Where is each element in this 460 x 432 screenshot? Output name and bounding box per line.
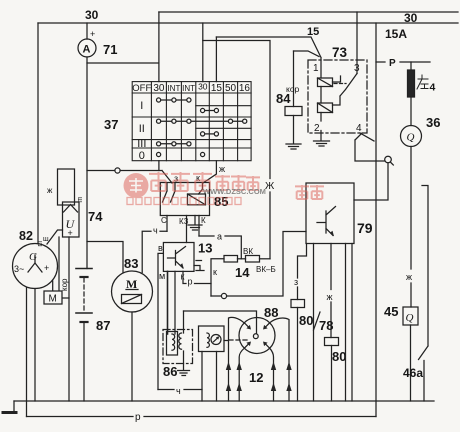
label 14 — [235, 265, 250, 280]
wire 79 pin 1 jog with resistor 80 — [298, 244, 307, 300]
svg-text:ч: ч — [153, 226, 158, 236]
svg-text:+: + — [68, 228, 73, 238]
svg-text:80: 80 — [299, 313, 313, 328]
svg-text:II: II — [139, 123, 145, 135]
transistor symbol inside 79 — [317, 207, 336, 236]
svg-text:G: G — [29, 251, 37, 263]
svg-text:С: С — [161, 216, 167, 225]
svg-text:0: 0 — [139, 150, 145, 162]
label 85 — [214, 194, 228, 209]
svg-text:з: з — [294, 277, 298, 287]
distributor electrode arrows — [265, 323, 269, 327]
watermark logo and text — [124, 172, 325, 205]
wire 45 to ground bus — [410, 325, 412, 401]
svg-text:73: 73 — [332, 45, 348, 60]
wire motor 83 left feed — [87, 242, 123, 273]
battery 87 — [76, 268, 92, 270]
label 82 — [19, 229, 33, 243]
label 13 — [198, 241, 212, 256]
svg-text:р: р — [188, 277, 193, 287]
generator G 82 — [13, 244, 58, 289]
label 36 — [426, 115, 440, 130]
svg-text:WWW.DZSC.COM: WWW.DZSC.COM — [203, 187, 266, 196]
breaker box — [199, 326, 225, 352]
wire M box to kor wire — [63, 297, 69, 299]
wire generator to ground bus — [34, 289, 36, 402]
label 88 — [264, 305, 278, 320]
wire top bus upper — [159, 11, 458, 13]
ground pin 2 — [314, 141, 330, 146]
label VK-B — [256, 265, 276, 274]
coil 86 secondary winding — [179, 333, 182, 349]
svg-text:15: 15 — [211, 83, 223, 94]
wire P line — [376, 61, 430, 63]
svg-text:82: 82 — [19, 229, 33, 243]
wire 15A line down right side — [375, 23, 377, 417]
ignition coil 86 box dash-dot — [163, 330, 193, 364]
node o junction circle — [115, 168, 120, 173]
label 74 — [88, 209, 103, 224]
svg-text:86: 86 — [163, 364, 177, 379]
connector Q symbol — [385, 156, 392, 163]
ground capacitor 84 — [286, 144, 301, 149]
svg-text:ВК: ВК — [243, 247, 253, 256]
fuse left-4 — [410, 62, 412, 70]
wire resistor right to Zh wire — [260, 258, 271, 260]
wire pin 4 to 15A line — [360, 133, 374, 141]
relay 85 pin KZ wire to transistor 13 — [186, 216, 188, 243]
wire 15 line to relay 73 pin 1 — [216, 37, 321, 78]
wire top bus lower (30) — [38, 22, 458, 24]
svg-text:ж: ж — [47, 186, 53, 195]
wire lower bus p — [27, 416, 377, 418]
svg-text:I: I — [140, 100, 143, 112]
svg-text:М: М — [49, 294, 57, 305]
wire Zh feed from top — [203, 41, 270, 259]
svg-text:37: 37 — [104, 117, 118, 132]
wire main vertical bus ammeter to battery — [86, 63, 88, 269]
wire battery to ground bus — [83, 322, 85, 401]
svg-text:ж: ж — [406, 272, 412, 282]
relay 85 pin K wire — [198, 216, 200, 237]
svg-text:12: 12 — [249, 370, 263, 385]
resistor VK-B — [246, 256, 260, 263]
wire upper ground bus — [14, 400, 434, 402]
svg-text:ш: ш — [36, 241, 43, 247]
relay 73 switch blade — [333, 74, 358, 106]
wire coil2 to pin 2 ground — [320, 113, 322, 141]
resistor 80 upper — [291, 300, 305, 308]
wire HT line to distributor center — [184, 311, 257, 333]
svg-text:78: 78 — [319, 318, 333, 333]
svg-text:2: 2 — [314, 123, 320, 134]
svg-text:71: 71 — [103, 42, 117, 57]
capacitor 84 — [293, 51, 295, 107]
table contacts row II — [159, 120, 245, 122]
svg-text:46a: 46a — [403, 366, 423, 380]
svg-text:К: К — [201, 216, 206, 225]
ground coil 86 — [178, 351, 190, 376]
wire pin 3 feed from top — [356, 12, 358, 74]
svg-text:A: A — [83, 44, 91, 56]
svg-text:з: з — [174, 174, 178, 184]
wire breaker to rotor dashed — [224, 339, 247, 342]
label sh left of U box — [36, 241, 43, 247]
transistor symbol inside 13 — [168, 247, 186, 269]
svg-text:15: 15 — [307, 26, 319, 38]
wire ch dash from pin C to motor — [142, 231, 167, 272]
svg-text:ч: ч — [176, 386, 181, 396]
wire table col 30-2 feed — [202, 23, 204, 82]
sensor Q 36 — [401, 126, 422, 147]
svg-text:30: 30 — [85, 8, 99, 22]
wire 79 pin 2 — [313, 244, 315, 402]
relay 85 contacts — [163, 183, 176, 202]
svg-text:4: 4 — [430, 82, 436, 94]
wire capacitor 84 to pin 1 — [294, 51, 320, 57]
wire pin 4 branch to Q connector and box 79 — [355, 133, 385, 161]
svg-text:4: 4 — [356, 123, 362, 134]
wire regulator to M box — [58, 237, 60, 290]
spark plug wire 2 — [239, 348, 244, 401]
wire ammeter output to table column 30 — [87, 57, 159, 63]
svg-text:ж: ж — [219, 164, 225, 174]
svg-text:INT: INT — [182, 84, 195, 93]
svg-text:в: в — [158, 243, 163, 253]
voltage regulator 74 housing — [58, 169, 75, 205]
svg-text:83: 83 — [124, 256, 138, 271]
label 86 — [163, 364, 177, 379]
pin v wire down to coil 86 side — [158, 253, 163, 389]
ignition module 79 box — [306, 183, 354, 244]
table contacts row 0 — [157, 152, 161, 156]
wire between resistors — [238, 258, 246, 260]
svg-text:Q: Q — [407, 132, 415, 144]
svg-text:КЗ: КЗ — [179, 217, 189, 226]
svg-text:13: 13 — [198, 241, 212, 256]
glow plug box 45 — [403, 307, 418, 325]
label kor — [286, 84, 300, 94]
label 83 — [124, 256, 138, 271]
node p label — [135, 412, 141, 423]
label 12 — [249, 370, 263, 385]
breaker box output wires — [202, 352, 217, 402]
wire left frame to generator — [37, 23, 39, 244]
svg-text:+: + — [44, 263, 49, 273]
relay 85 box — [160, 183, 209, 216]
relay 85 coil — [188, 194, 206, 205]
svg-text:30: 30 — [404, 11, 418, 25]
wire motor to ground bus — [131, 312, 133, 401]
wire M box link to generator — [52, 281, 54, 290]
wire generator shunt to regulator — [47, 230, 63, 244]
svg-text:м: м — [159, 271, 165, 281]
svg-text:36: 36 — [426, 115, 440, 130]
svg-text:P: P — [389, 58, 396, 69]
wire o line from p to box 79 — [211, 232, 306, 297]
node o circle — [221, 293, 226, 298]
label k pin top — [196, 173, 200, 183]
wire between coils — [320, 87, 322, 104]
svg-text:14: 14 — [235, 265, 250, 280]
pin labels 1 3 2 4 — [313, 63, 362, 134]
wire 79 right side down — [351, 244, 353, 402]
svg-text:Q: Q — [406, 312, 414, 324]
wire 79 pin 4 — [345, 244, 347, 402]
relay 73 coil 2 — [318, 103, 333, 113]
label 79 — [357, 220, 373, 236]
wiper motor M 83 — [112, 271, 153, 312]
svg-text:87: 87 — [96, 318, 110, 333]
svg-text:30: 30 — [153, 83, 165, 94]
table row labels I II III 0 — [137, 100, 146, 162]
svg-text:30: 30 — [198, 82, 208, 92]
svg-text:+: + — [90, 29, 95, 39]
regulator U element — [63, 202, 80, 237]
pin labels C KZ K — [161, 216, 206, 226]
node 30 label left — [85, 8, 99, 22]
wire table col 15 to relay 85 contact k — [203, 161, 216, 183]
label 37 — [104, 117, 118, 132]
wire table col 30 feed from top — [158, 12, 160, 82]
label 84 — [276, 91, 291, 106]
svg-text:Ж: Ж — [265, 181, 275, 192]
wire secondary top from HT line — [183, 311, 185, 333]
wire resistor feed left — [211, 259, 224, 284]
svg-text:1: 1 — [313, 63, 319, 74]
relay 73 coil 1 — [318, 78, 333, 87]
svg-text:88: 88 — [264, 305, 278, 320]
wire Q36 down to 45 — [410, 147, 412, 308]
label zuo 4 — [417, 75, 428, 89]
switch table grid 37 — [132, 82, 251, 161]
distributor 88 — [239, 318, 275, 354]
label 87 — [96, 318, 110, 333]
svg-text:45: 45 — [384, 304, 398, 319]
coil 86 primary winding — [172, 334, 175, 350]
table contacts row III — [159, 143, 189, 145]
svg-text:84: 84 — [276, 91, 291, 106]
wire ammeter drop — [86, 23, 88, 39]
label 45 — [384, 304, 398, 319]
label slash 78 — [314, 312, 321, 330]
svg-text:а: а — [217, 232, 222, 242]
relay 85 pin C wire — [166, 216, 168, 232]
relay 73 box dash-dot — [308, 60, 367, 133]
label kor rotated — [60, 278, 69, 291]
M box of generator — [44, 291, 62, 304]
wire a line from relay 85 K — [199, 236, 241, 259]
relay 85 ground — [188, 216, 202, 231]
svg-text:ж: ж — [327, 292, 333, 302]
pin m wire to ignition coil — [167, 271, 169, 334]
label zh at table bottom — [219, 164, 225, 174]
wire table col 15 feed — [215, 37, 217, 82]
svg-text:74: 74 — [88, 209, 103, 224]
wire ch bottom line — [158, 389, 202, 391]
spark plug wire 4 — [270, 318, 289, 401]
breaker cam circle — [211, 335, 221, 345]
svg-text:16: 16 — [239, 83, 251, 94]
resistor 80 lower — [325, 338, 339, 346]
table contacts row I — [159, 99, 189, 101]
spark plug wire 3 — [270, 348, 274, 401]
wire junction line with node o — [87, 171, 172, 184]
svg-text:III: III — [137, 138, 146, 150]
svg-text:кор: кор — [60, 278, 69, 291]
wire kor regulator to ground bus — [68, 237, 70, 401]
coil 86 inner frame — [167, 332, 178, 356]
ammeter A 71 — [78, 39, 96, 57]
svg-text:50: 50 — [225, 83, 237, 94]
switch 46a — [419, 186, 429, 402]
svg-text:15A: 15A — [385, 27, 407, 41]
relay 73 armature link — [333, 76, 341, 82]
svg-text:OFF: OFF — [132, 83, 151, 94]
spark plug wire 1 — [229, 317, 245, 401]
label k near resistor — [213, 267, 217, 277]
node 30 label right — [404, 11, 418, 25]
label sh inside housing — [76, 197, 83, 203]
minus and emitter terminal symbol — [196, 260, 202, 262]
wire generator to lower bus p — [26, 288, 28, 417]
ground left end of bus — [13, 401, 15, 411]
svg-text:к: к — [213, 267, 217, 277]
label 71 — [103, 42, 117, 57]
pin k wire to ignition coil — [174, 271, 176, 334]
label 73 — [332, 45, 348, 60]
label 46a — [403, 366, 423, 380]
label sh terminal — [43, 236, 49, 243]
table header labels — [132, 82, 250, 95]
wire 79 pin 3 with resistor 80 — [330, 244, 332, 338]
label VK — [243, 247, 253, 256]
breaker winding — [207, 333, 209, 347]
svg-text:ВК–Б: ВК–Б — [256, 265, 276, 274]
resistor 14 VK — [224, 256, 238, 263]
transistor commutator 13 box — [163, 243, 194, 272]
pin p wire — [183, 271, 211, 296]
svg-text:p: p — [135, 412, 141, 423]
svg-text:INT: INT — [167, 84, 180, 93]
svg-text:3~: 3~ — [14, 264, 24, 274]
svg-text:80: 80 — [332, 349, 346, 364]
wire table col 30 bottom stub to o line — [158, 161, 160, 171]
svg-text:79: 79 — [357, 220, 373, 236]
svg-text:ш: ш — [76, 197, 83, 203]
label zh wire — [47, 186, 53, 195]
label z pin — [174, 174, 178, 184]
